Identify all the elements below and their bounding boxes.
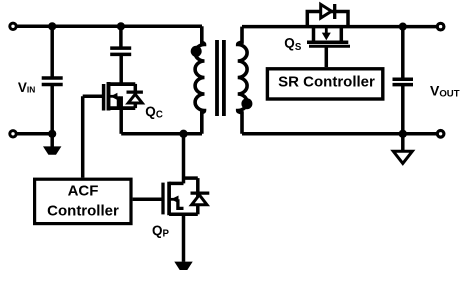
svg-text:SR Controller: SR Controller: [278, 74, 375, 91]
svg-text:ACF: ACF: [68, 182, 99, 199]
svg-text:Controller: Controller: [47, 203, 119, 220]
